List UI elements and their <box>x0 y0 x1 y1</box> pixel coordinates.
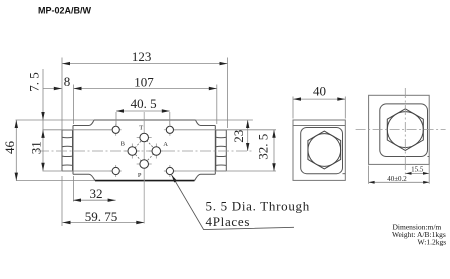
mounting hole top-left <box>112 126 119 133</box>
body right edge <box>214 126 216 175</box>
svg-text:123: 123 <box>132 49 152 64</box>
extension lines <box>16 58 277 227</box>
svg-text:40±0.2: 40±0.2 <box>387 175 407 183</box>
port A <box>152 147 161 156</box>
body outline bottom edge <box>95 180 195 182</box>
port P <box>140 160 149 169</box>
view1 circle <box>308 134 341 167</box>
port T <box>140 133 149 142</box>
body top-left step <box>73 120 94 126</box>
view2 pocket bottom extension <box>428 156 430 158</box>
svg-text:32: 32 <box>90 186 103 201</box>
svg-text:59. 75: 59. 75 <box>85 209 118 224</box>
body bottom-right step <box>195 174 216 180</box>
port B <box>128 147 137 156</box>
view2 box <box>369 95 430 164</box>
svg-text:W:1.2kgs: W:1.2kgs <box>418 238 447 247</box>
dimension 7.5 (vertical) <box>27 69 45 130</box>
svg-text:40. 5: 40. 5 <box>131 96 157 111</box>
view1 step line <box>293 125 345 127</box>
dimension 59.75 <box>63 209 145 224</box>
dimension 40±0.2 <box>369 158 430 184</box>
left nut side view <box>62 130 73 171</box>
svg-text:MP-02A/B/W: MP-02A/B/W <box>38 6 92 16</box>
dimension 123 <box>62 49 228 65</box>
view1 pocket bottom extension <box>343 173 346 175</box>
port cross ticks <box>125 138 164 165</box>
svg-text:A: A <box>163 141 168 148</box>
leader 5.5 dia <box>172 175 295 230</box>
svg-text:5. 5 Dia. Through: 5. 5 Dia. Through <box>206 199 310 214</box>
dimension 40 <box>293 84 345 119</box>
dimension 31 (vertical) <box>29 130 45 171</box>
body outline top edge <box>94 119 196 121</box>
mounting hole bottom-right <box>166 167 173 174</box>
view2 horizontal centerline <box>356 129 446 131</box>
dimension 8 / 107 <box>43 74 217 90</box>
svg-text:B: B <box>121 141 126 148</box>
dimension 23 (vertical) <box>231 120 249 151</box>
mounting hole cross ticks <box>110 124 176 177</box>
view2 vertical centerline <box>404 88 406 174</box>
svg-text:8: 8 <box>64 74 71 89</box>
right nut side view <box>216 130 227 171</box>
dimension 40.5 <box>116 96 170 113</box>
svg-text:P: P <box>138 172 142 179</box>
dimension 46 (vertical) <box>2 120 18 181</box>
svg-text:4Places: 4Places <box>206 214 251 229</box>
svg-text:31: 31 <box>29 141 44 154</box>
svg-text:32. 5: 32. 5 <box>256 134 271 160</box>
svg-text:T: T <box>139 124 143 131</box>
view2 rounded pocket <box>380 104 428 157</box>
svg-text:107: 107 <box>134 75 154 90</box>
vertical centerline through T,P <box>143 112 145 224</box>
mounting hole bottom-left <box>112 167 119 174</box>
svg-text:40: 40 <box>313 84 326 99</box>
svg-text:7. 5: 7. 5 <box>27 72 42 92</box>
view2 hexagon <box>387 109 423 151</box>
view1 rounded pocket <box>301 128 343 174</box>
view1 hexagon <box>308 131 341 169</box>
svg-text:46: 46 <box>2 141 17 155</box>
svg-text:15.5: 15.5 <box>411 166 424 174</box>
body bottom-left step <box>73 174 95 180</box>
dimension 32.5 (vertical) <box>256 130 276 171</box>
svg-text:23: 23 <box>231 130 246 143</box>
body top-right step <box>196 120 216 126</box>
dimension 15.5 <box>406 166 430 175</box>
dimension 32 <box>73 186 116 202</box>
mounting hole top-right <box>166 126 173 133</box>
view2 circle <box>387 112 423 148</box>
body left edge <box>72 126 74 175</box>
dashed diamond connecting ports <box>132 138 156 165</box>
horizontal centerline <box>38 150 253 152</box>
view1 box <box>293 120 345 180</box>
